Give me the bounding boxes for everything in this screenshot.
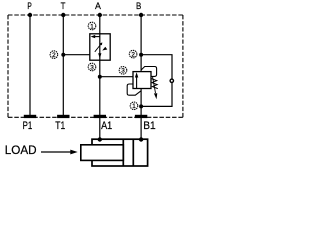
flow valve adjust diagonal (95, 44, 102, 52)
wire A1 to cylinder (99, 117, 101, 139)
wire B line upper (140, 15, 142, 72)
callout 3 (pilot line) (119, 67, 127, 75)
junction dot bypass bottom (139, 104, 143, 108)
cylinder piston (122, 139, 124, 166)
LOAD arrow (41, 151, 73, 153)
wire T branch to flow valve (63, 54, 90, 56)
wire B1 to cylinder (140, 117, 142, 139)
svg-text:2: 2 (52, 52, 56, 59)
flow valve down arrow head (98, 53, 101, 58)
wire A line (99, 15, 101, 117)
junction dot A pilot (98, 75, 102, 79)
junction dot A1 cylinder (98, 137, 102, 141)
port A1 bar (94, 115, 106, 118)
svg-text:P: P (27, 1, 31, 12)
svg-text:3: 3 (121, 68, 125, 75)
callout 1 (bypass) (130, 102, 138, 110)
callout 2 (B branch) (129, 50, 137, 58)
svg-text:B: B (136, 1, 141, 12)
flow valve check arrowhead (102, 47, 107, 51)
svg-text:T1: T1 (55, 120, 65, 132)
junction dot B (139, 13, 143, 17)
wire B bypass top branch (141, 55, 172, 79)
counterbalance top pilot hook (141, 67, 156, 77)
svg-text:P1: P1 (23, 120, 33, 132)
svg-text:B1: B1 (143, 120, 155, 132)
callout 2 (T branch) (50, 51, 58, 59)
svg-text:1: 1 (90, 23, 94, 30)
orifice circle on bypass (170, 79, 173, 82)
junction dot B branch (139, 53, 143, 57)
svg-text:A: A (95, 1, 101, 12)
counterbalance valve body (133, 72, 151, 89)
wire pilot line A to counterbalance (100, 76, 133, 78)
junction dot B1 cylinder (139, 137, 143, 141)
junction dot A (98, 13, 102, 17)
port T1 bar (57, 115, 69, 118)
port B1 bar (135, 115, 147, 118)
counterbalance up arrow (136, 76, 138, 88)
wire T line (62, 15, 64, 117)
cylinder barrel (92, 139, 148, 166)
svg-text:3: 3 (90, 64, 94, 71)
flow valve left arrow (94, 36, 101, 38)
junction dot T (61, 13, 65, 17)
svg-text:A1: A1 (101, 120, 112, 132)
junction dot P (28, 13, 32, 17)
svg-text:2: 2 (131, 52, 135, 59)
cylinder rod (81, 145, 124, 161)
counterbalance spring (152, 79, 158, 89)
callout 1 (flow valve) (88, 22, 96, 30)
svg-text:T: T (61, 1, 66, 12)
svg-text:1: 1 (132, 103, 136, 110)
wire B line lower (140, 89, 142, 118)
flow control valve body (90, 34, 110, 60)
wire bypass lower (141, 83, 172, 106)
callout 3 (below flow valve) (88, 63, 96, 71)
manifold boundary (dashed) (8, 15, 183, 117)
counterbalance adjust arrow (153, 77, 156, 94)
counterbalance bottom pilot hook (127, 84, 141, 95)
wire P line (29, 15, 31, 117)
port P1 bar (24, 115, 36, 118)
svg-text:LOAD: LOAD (5, 143, 37, 157)
junction dot T branch (61, 53, 65, 57)
